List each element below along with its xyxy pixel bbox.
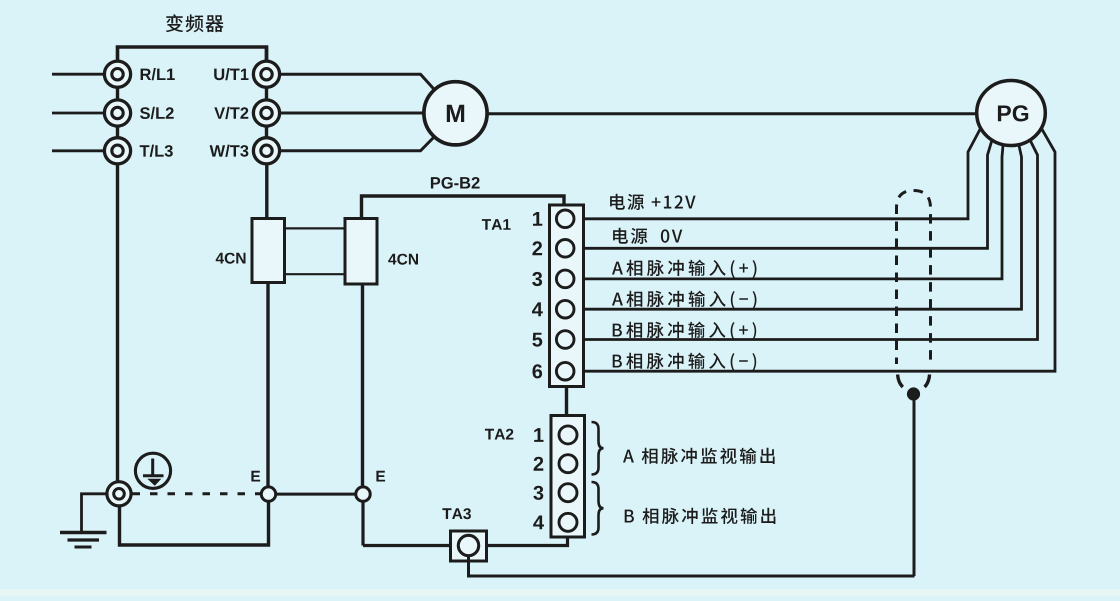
wire inverter bottom loop	[120, 501, 269, 545]
wire left column T/L3 to ground terminal	[116, 164, 119, 482]
terminal block TA1	[550, 205, 584, 387]
wire motor to PG	[487, 112, 977, 115]
shield capsule bottom-right arc	[925, 375, 930, 388]
wire TA3 to shield return	[469, 556, 915, 577]
wire ground terminal to earth	[82, 494, 107, 531]
label E2	[376, 471, 385, 482]
label B相脉冲监视输出	[625, 508, 776, 524]
wire input stub R/L1	[52, 73, 105, 76]
pin number TA1-4	[532, 302, 543, 316]
wire E to TA3	[363, 544, 451, 547]
wire TA1 pin 3 to PG (A+)	[575, 146, 1003, 279]
wire right column W/T3 to 4CN	[265, 164, 268, 220]
label TA3	[442, 508, 471, 519]
label TA2	[485, 429, 514, 440]
pin number TA2-2	[534, 457, 544, 471]
wire right column top to U/T1	[265, 47, 268, 61]
pin number TA2-4	[533, 516, 544, 530]
terminal S/L2	[104, 100, 130, 126]
label A相脉冲输入(+)	[612, 260, 757, 278]
pin number TA1-3	[532, 272, 542, 286]
pin number TA2-1	[534, 428, 543, 442]
wire dashed ground link	[133, 492, 263, 495]
shield capsule bottom-left arc	[898, 375, 903, 388]
terminal TA1 pin 6	[556, 362, 574, 380]
node E2	[356, 487, 370, 501]
motor M	[424, 82, 487, 145]
label 4CN right	[388, 254, 418, 265]
terminal R/L1	[104, 61, 130, 87]
terminal V/T2	[253, 100, 279, 126]
wire E1 to E2	[276, 493, 357, 496]
wire left column lower (4CN to E)	[266, 281, 269, 488]
terminal ground (inverter)	[107, 482, 131, 506]
wire TA2 to TA3	[487, 537, 568, 546]
wire left column R/L1-S/L2	[116, 88, 119, 100]
wire PG-B2 card outline top	[362, 196, 565, 220]
label T/L3	[140, 145, 173, 157]
pin number TA1-5	[532, 333, 542, 347]
wire TA1 pin 5 to PG (B+)	[575, 140, 1038, 340]
terminal TA2 pin 3	[559, 484, 577, 502]
protective earth symbol	[135, 453, 170, 488]
label TA1	[482, 219, 511, 230]
pin number TA2-3	[533, 486, 543, 500]
terminal U/T1	[253, 61, 279, 87]
terminal TA2 pin 2	[559, 455, 577, 473]
connector 4CN right	[345, 219, 377, 285]
brace B phase monitor pair	[592, 482, 604, 535]
label A相脉冲输入(−)	[612, 291, 757, 309]
brace A phase monitor pair	[592, 422, 604, 475]
ground symbol	[60, 533, 107, 548]
terminal TA1 pin 1	[556, 210, 574, 228]
wire W/T3 to motor	[280, 134, 437, 151]
pin number TA1-6	[533, 364, 543, 378]
wire E2 down	[361, 501, 364, 546]
pin number TA1-1	[533, 212, 542, 226]
shield dashed capsule	[897, 191, 931, 365]
wire TA1 pin 4 to PG (A-)	[575, 146, 1022, 310]
label 电源 +12V	[610, 194, 696, 210]
terminal TA1 pin 3	[556, 270, 574, 288]
label W/T3	[210, 145, 249, 157]
wire TA1 to TA2	[565, 387, 568, 418]
label E1	[251, 471, 260, 482]
wire left column S/L2-T/L3	[116, 126, 119, 137]
terminal TA1 pin 4	[556, 300, 574, 318]
terminal W/T3	[253, 138, 279, 164]
wire right column U/T1-V/T2	[265, 88, 268, 100]
label U/T1	[214, 68, 248, 80]
inverter label 变频器	[166, 14, 224, 32]
node E1	[261, 487, 275, 501]
pin number TA1-2	[532, 241, 542, 255]
wire inverter top outline	[118, 47, 267, 61]
terminal TA1 pin 5	[556, 331, 574, 349]
wire TA1 pin 1 to PG (+12V)	[575, 128, 981, 219]
label V/T2	[214, 107, 248, 119]
label R/L1	[141, 68, 175, 80]
wire 4CN ribbon bottom	[285, 273, 346, 275]
wire PG-B2 left edge below 4CN	[361, 283, 364, 488]
wire TA1 pin 6 to PG (B-)	[575, 128, 1055, 372]
label PG-B2	[431, 177, 480, 189]
terminal TA3	[451, 531, 487, 561]
terminal TA2 pin 1	[559, 426, 577, 444]
wire input stub S/L2	[52, 112, 105, 115]
wire TA1 pin 2 to PG (0V)	[575, 140, 992, 248]
terminal TA1 pin 2	[556, 240, 574, 258]
wire V/T2 to motor	[280, 112, 425, 115]
terminal block TA2	[551, 416, 585, 538]
node shield connection dot	[907, 387, 920, 400]
wire 4CN ribbon top	[285, 227, 346, 229]
wire shield drain	[913, 400, 916, 576]
terminal TA2 pin 4	[559, 513, 577, 531]
label S/L2	[140, 107, 174, 119]
connector 4CN left	[252, 219, 285, 283]
wire U/T1 to motor	[280, 74, 437, 92]
label B相脉冲输入(+)	[613, 322, 757, 340]
label 电源 0V	[613, 228, 682, 244]
label A相脉冲监视输出	[623, 448, 775, 464]
wire input stub T/L3	[52, 149, 105, 152]
label 4CN left	[216, 253, 246, 264]
wire right column V/T2-W/T3	[265, 126, 268, 137]
terminal T/L3	[104, 138, 130, 164]
encoder PG	[977, 81, 1046, 146]
label B相脉冲输入(−)	[613, 353, 757, 371]
